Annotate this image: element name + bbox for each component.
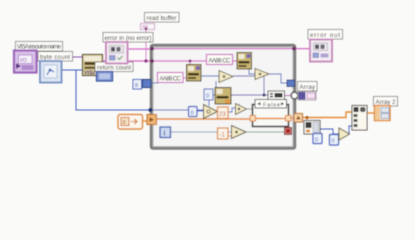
case selector label False: [255, 100, 287, 109]
svg-text:Array: Array: [300, 85, 316, 91]
wire: 23 box to triangle2: [228, 108, 236, 112]
wire: triangle B out to blue tunnel: [269, 74, 287, 83]
wire: blue const down to triangle1 top: [208, 100, 210, 106]
numeric constant (blue) above triangle1: [204, 89, 213, 100]
svg-text:i: i: [164, 131, 166, 138]
junction on read buffer wire: [144, 59, 147, 62]
label: VISA resource name: [16, 42, 63, 52]
svg-text:error out: error out: [310, 33, 340, 39]
svg-text:I/O: I/O: [20, 58, 27, 64]
case tunnel right: [286, 116, 292, 122]
wire: const to node2: [212, 94, 215, 96]
case tunnel left: [250, 116, 256, 122]
comparison triangle A: [219, 71, 233, 83]
svg-text:23: 23: [219, 112, 226, 118]
initialize array node (orange): [118, 115, 143, 130]
wire: read buffer string from VISA Read to loop (pink): [102, 60, 152, 62]
build/concat node3: [268, 91, 285, 100]
wire: orange branch into index array: [306, 118, 308, 122]
label: return count: [95, 62, 133, 72]
orange tunnel / shift register right: [294, 114, 303, 123]
svg-text:8: 8: [123, 120, 126, 126]
wire: node2 out to node3 (violet): [231, 94, 268, 96]
label: error in (no error): [103, 33, 153, 43]
loop: blue tunnel on left border: [143, 80, 152, 88]
wire: match2 down to triangle B: [249, 69, 255, 74]
wire: match1 bottom into node2 top: [215, 81, 217, 88]
numeric constant -1 (orange): [218, 128, 229, 139]
build array node: [352, 106, 367, 131]
label: error out: [308, 30, 343, 40]
wire: error out of loop to error out icon (pink): [294, 48, 311, 50]
numeric constant blue 2: [330, 135, 339, 146]
wire: byte count inside loop (blue): [152, 109, 203, 111]
byte count control icon: [40, 61, 62, 83]
wire: string wire inside loop (pink): [152, 60, 238, 62]
svg-text:AA88 CC: AA88 CC: [160, 76, 182, 82]
string constant AA88 CC (1): [158, 73, 184, 83]
VISA Read function icon: [83, 55, 103, 77]
label: read buffer: [145, 13, 180, 23]
return count indicator terminal: [97, 72, 113, 82]
VISA resource name control icon: [14, 51, 37, 73]
error out cluster icon: [310, 40, 332, 62]
label: Array: [298, 82, 318, 92]
iteration terminal i: [160, 127, 171, 138]
match pattern function 1: [187, 65, 202, 82]
Array indicator icon (array of strings): [298, 92, 316, 101]
read buffer indicator terminal: [141, 24, 155, 30]
comparison triangle B: [255, 69, 269, 80]
error in cluster icon: [106, 42, 128, 64]
wire: const to triangle1: [196, 110, 204, 112]
label: Array 2: [374, 97, 398, 107]
shift register (left, orange): [147, 115, 157, 125]
wire: AA88 CC 1 to match 1: [182, 77, 187, 79]
wire: circle tunnel to Array icon (pink): [297, 95, 299, 97]
wire: i terminal to triangle3 (blue): [170, 131, 231, 133]
wire: triangle A out right and down: [233, 76, 264, 95]
numeric constant (blue) left of triangle1: [189, 107, 198, 117]
svg-text:8: 8: [135, 83, 138, 89]
numeric constant blue (below index array): [313, 134, 322, 144]
wire: build array to Array 2: [367, 112, 375, 114]
svg-text:error in (no error): error in (no error): [105, 36, 152, 42]
wire: blue const stubs bottom right: [316, 131, 318, 134]
svg-text:0: 0: [315, 138, 318, 144]
svg-text:read buffer: read buffer: [147, 16, 177, 22]
comparison triangle 3: [232, 126, 247, 139]
wire: triangle2 to case selector (green): [246, 108, 253, 110]
wire: match1 to triangle A (blue): [201, 75, 219, 77]
svg-text:AA88 CC: AA88 CC: [209, 58, 232, 64]
index array node (bottom right): [304, 121, 320, 135]
svg-text:0: 0: [332, 139, 335, 145]
comparison triangle 1 (large): [204, 105, 218, 119]
loop: blue constant outside left border: [133, 80, 142, 90]
case orange wire through: [252, 118, 289, 120]
Array 2 indicator icon (array of numbers): [375, 106, 391, 121]
svg-text:return count: return count: [97, 65, 131, 71]
comparison triangle 2: [236, 104, 247, 115]
wire: -1 const to triangle3: [228, 135, 231, 137]
svg-text:-1: -1: [220, 133, 226, 139]
wire: index array out to triangle4: [320, 129, 339, 134]
wire: error in to loop border (pink): [127, 48, 152, 50]
svg-text:False: False: [263, 103, 280, 109]
wire: string into match 2 left: [237, 58, 239, 61]
wire: orange main through loop: [156, 118, 250, 120]
string/number function node2: [215, 88, 231, 105]
numeric constant 23 (orange): [218, 107, 229, 119]
wire: orange outside loop to build array: [302, 112, 352, 118]
while loop structure border: [151, 45, 294, 148]
match pattern function 2: [237, 53, 252, 70]
case structure border: [253, 105, 289, 127]
wire: init array to shift register: [142, 120, 148, 122]
string constant AA88 CC (2): [207, 55, 233, 65]
comparison triangle 4: [339, 128, 350, 140]
wire: error wire along loop top (pink): [152, 48, 294, 50]
wire: blue tunnel stub inside: [152, 82, 158, 84]
svg-text:0: 0: [191, 111, 194, 117]
wire: triangle4 out to build array: [349, 126, 352, 134]
svg-text:byte count: byte count: [40, 55, 70, 61]
wire: VISA resource name to VISA Read (violet): [36, 56, 83, 58]
wire: byte count to VISA Read and down into loop (blue): [61, 69, 83, 71]
loop stop conditional terminal: [285, 128, 292, 135]
label: byte count: [38, 52, 73, 62]
circle tunnel for Array output: [291, 92, 298, 99]
tunnel dot error in: [150, 47, 154, 51]
wire: triangle3 to stop terminal (green): [246, 131, 285, 133]
blue tunnel on right border: [287, 80, 295, 87]
svg-text:0: 0: [206, 94, 209, 100]
branch into match pattern 1: [189, 61, 191, 66]
wire: read buffer indicator drop (pink): [145, 29, 147, 61]
wire: node3 out to circle tunnel: [284, 95, 292, 97]
wire: node2 down to triangle2 top: [238, 104, 240, 106]
